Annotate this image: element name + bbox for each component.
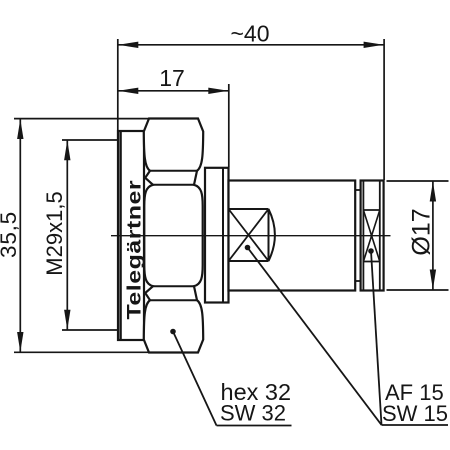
dimension 17: right extension line: [228, 84, 230, 167]
svg-text:M29x1,5: M29x1,5: [42, 191, 67, 275]
shaft crossed box (AF15 hex section): [229, 208, 269, 210]
svg-text:~40: ~40: [230, 21, 269, 47]
dimension ~40: line with arrows: [118, 44, 383, 46]
svg-text:Ø17: Ø17: [408, 208, 436, 255]
leader dot on hex: [170, 329, 176, 335]
washer inner edge: [222, 168, 224, 303]
washer disc behind hex: [205, 168, 229, 303]
svg-text:35,5: 35,5: [0, 211, 21, 258]
hex face band lines: [150, 170, 197, 172]
dimension M29x1,5: extension lines: [62, 139, 118, 141]
leader dot on end cap: [368, 248, 374, 254]
end cap (right end, AF15): [361, 181, 384, 291]
left block (interface/thread section): [118, 131, 144, 340]
dimension Ø17: line with arrows: [432, 182, 434, 290]
centerline: [111, 235, 391, 237]
interface face thick edge: [119, 132, 121, 340]
hex nut body (hex 32): [144, 119, 203, 353]
leader dot on shaft crossed box: [245, 245, 251, 251]
dimension M29x1,5: line with arrows: [66, 140, 68, 329]
leader line end cap -> label: [371, 251, 382, 425]
hex label underline: [217, 425, 292, 427]
svg-text:SW 32: SW 32: [220, 401, 286, 426]
end cap crossed box: [363, 209, 379, 211]
AF label underline: [382, 424, 449, 426]
dimension Ø17: extension lines: [387, 180, 449, 182]
crossed box end ellipse: [269, 209, 275, 261]
svg-text:SW 15: SW 15: [382, 401, 448, 426]
dimension 35,5: line with arrows: [19, 119, 21, 352]
svg-text:Telegärtner: Telegärtner: [123, 180, 145, 320]
groove neck between shaft and end cap: [360, 181, 362, 291]
svg-text:17: 17: [159, 65, 185, 91]
end cap inner verticals: [362, 181, 364, 291]
shaft cylinder (Ø17): [229, 181, 356, 291]
leader line hex -> label: [173, 332, 217, 426]
dimension 35,5: extension lines: [14, 118, 149, 120]
dimension 17: line with arrows: [118, 90, 228, 92]
dimension ~40: extension lines: [117, 39, 119, 140]
leader line crossed box -> label: [248, 248, 382, 426]
